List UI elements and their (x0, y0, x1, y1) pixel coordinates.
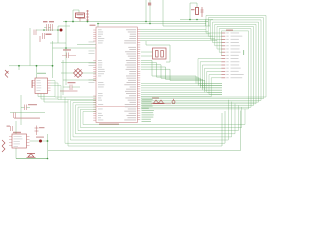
wire bus mid horizontals extended (198, 83, 222, 85)
wire h y158 left (16, 158, 48, 160)
resistor R2 value label (191, 9, 195, 10)
junction rail a (18, 65, 20, 67)
crystal Q2 inner right (161, 51, 164, 58)
wire stub x205 down (205, 20, 207, 27)
wire vertical x30 (29, 28, 31, 66)
gnd label row (14, 118, 40, 119)
voltage regulator VR1 label (77, 14, 84, 15)
green label above U2 (37, 73, 46, 74)
wire net single y150 (48, 150, 241, 152)
crystal Y2 vertical (36, 126, 38, 136)
wire bridge to IC (83, 72, 97, 74)
transducer SP1 symbol (27, 154, 36, 158)
wire crystal right down (169, 45, 171, 62)
capacitor C4 (24, 105, 26, 111)
sensor U2 left pins (32, 80, 35, 82)
net label vertical right (243, 50, 244, 55)
capacitor C3 (42, 33, 44, 39)
wire stub x209 down (208, 20, 210, 27)
wire h y62.5 to IC (61, 62, 96, 64)
wire cap C5 leads (63, 86, 70, 88)
wire v x47.5 (47, 134, 49, 159)
IC1 value label below (99, 124, 119, 125)
junction x58 (57, 29, 59, 31)
wire net bottom gnd rail (16, 158, 48, 160)
wire crystal top (146, 44, 170, 46)
capacitor C11 (66, 53, 68, 59)
junction x66 y21 (65, 21, 67, 23)
IC2 left pins (9, 136, 12, 138)
junction cap rail (43, 29, 45, 31)
LED D2 label (36, 137, 44, 138)
junction x47.5 y141 (47, 140, 49, 142)
sensor U2 interior text (37, 80, 42, 91)
wire regulator arch (72, 10, 74, 22)
red rail y91 (60, 90, 78, 92)
wire h y80 to IC (63, 79, 96, 81)
wire v x16 upper (15, 121, 17, 134)
wire bus IC top-right rows (140, 29, 206, 31)
IC2 interior text (14, 136, 23, 147)
wire bus arch left verticals (205, 16, 207, 34)
wire cap cluster top (44, 27, 47, 29)
wire net AVCC rail (98, 23, 206, 25)
wire bridge left (61, 72, 74, 74)
diode D1 red dot (60, 29, 63, 32)
polarized cap C10 (172, 99, 175, 104)
wire sensor nets to right (55, 96, 96, 98)
pin header JP1 pin ticks (86, 10, 89, 12)
sensor U2 right pins (48, 80, 51, 82)
wire vertical from top edge 1 (145, 0, 147, 22)
capacitor C5 label (68, 82, 76, 83)
IC1 net labels right outside (142, 99, 154, 122)
junction VR1 rail (72, 21, 74, 23)
capacitor C1 (46, 24, 48, 31)
wire h y26 (58, 25, 70, 27)
wire vertical from top edge 3 (162, 0, 164, 26)
wire IC1 top pin AVCC (97, 24, 99, 28)
IC2 name label (13, 132, 21, 133)
wire crystal to IC pin 1 (141, 51, 153, 53)
wire crystal to IC pin 2 (141, 55, 153, 57)
junction resistor rail (189, 19, 191, 21)
wire bus arch right verticals (265, 16, 267, 98)
wire bus right-fan horizontals (141, 96, 266, 98)
wire h y112.5 (10, 112, 45, 114)
wire h y19.5 right (180, 19, 213, 21)
capacitor C7 label (7, 126, 11, 127)
connector SV1 pin leads (221, 32, 225, 34)
node 5V supply label (148, 3, 151, 6)
pin header JP1 vertical (87, 10, 89, 22)
wire U2 right wires (51, 80, 56, 82)
diode D3 label (152, 97, 159, 98)
capacitor C11 label (63, 49, 71, 50)
capacitor C11 leads (62, 55, 67, 57)
wire rail y65.8 (9, 65, 53, 67)
resistor R2 (196, 8, 199, 15)
wire vertical from top edge 2 (149, 0, 151, 24)
wire X2 stub (18, 66, 20, 70)
wire net VCC top rail (63, 21, 208, 23)
capacitor C2 (50, 24, 52, 31)
red rail y103.8 segment (166, 103, 171, 105)
IC1 left pin ticks (93, 30, 96, 120)
IC1 right pin ticks (137, 30, 140, 120)
voltage regulator VR1 value label (78, 18, 86, 19)
wire bus arch tops (206, 15, 266, 17)
capacitor C5 (69, 85, 71, 91)
driver IC2 box (12, 134, 27, 148)
wire vertical x58 (57, 26, 59, 43)
sensor lower nets (38, 96, 55, 98)
op IC1 microcontroller box (96, 27, 137, 123)
wire VR1 output down (79, 18, 81, 22)
wire U2 top supply (36, 66, 38, 78)
wire v x16 lower (15, 148, 17, 159)
wire IC2 to LED (30, 140, 40, 142)
wire vertical x52.5 (52, 41, 54, 78)
crystal Q2 inner left (156, 51, 159, 58)
capacitor C4 label (28, 104, 37, 105)
junction x150 (149, 23, 151, 25)
capacitor C6 (13, 113, 15, 119)
wire h y43 (50, 42, 66, 44)
connector X2 arrow symbol (5, 70, 9, 78)
wire h y48 (53, 47, 97, 49)
LED D2 red dot (39, 140, 42, 143)
wire h y107 stub (21, 107, 25, 109)
IC1 name label (90, 25, 96, 26)
wire vertical x21 (20, 95, 22, 125)
junction AVCC (97, 23, 99, 25)
wire vertical x66 mid (65, 43, 67, 85)
crystal Q2 box (153, 48, 167, 59)
IC1 interior pin name text (98, 29, 136, 120)
sensor U2 box (35, 78, 48, 94)
capacitor C8 (33, 30, 35, 36)
junction y158 (47, 158, 49, 160)
wire IC2 row to x47 (42, 140, 48, 142)
wire vertical x66 upper (65, 22, 67, 44)
connector SV1 pin text (226, 33, 243, 79)
wire gnd stub cluster (39, 36, 41, 42)
capacitor C7 (10, 126, 12, 131)
wire vertical x63 (62, 60, 64, 95)
connector SV1 name label (226, 30, 233, 31)
IC1 internal divider (97, 106, 138, 108)
junction JP1 rail (87, 21, 89, 23)
wire bus IC mid staircase (141, 59, 152, 61)
wire bus connector lower staircase (197, 59, 199, 84)
sensor U2 label vertical (32, 80, 33, 88)
crystal Y2 label (39, 127, 45, 128)
junction y48 (65, 47, 67, 49)
wire bus bottom rows 8-9 (65, 142, 225, 144)
IC2 right pins (27, 136, 30, 138)
wire cap rail (36, 29, 58, 31)
wire net top rail 3 (163, 25, 210, 27)
junction rail b (36, 65, 38, 67)
IC1 left outside labels (89, 42, 95, 83)
diode bridge B1 (74, 69, 83, 78)
capacitor C3 value label (46, 34, 52, 36)
diode D3 D4 pair (152, 100, 166, 104)
wire bus bottom horizontals (71, 100, 97, 102)
junction x146 (145, 21, 147, 23)
voltage regulator VR1 (76, 13, 85, 18)
capacitor C1 label (43, 21, 48, 22)
wire resistor arch (189, 3, 191, 20)
junction rail c (52, 65, 54, 67)
capacitor C9 (201, 7, 203, 17)
audio jack X3 symbol (2, 140, 5, 152)
wire h y44.5 to IC (77, 44, 96, 46)
